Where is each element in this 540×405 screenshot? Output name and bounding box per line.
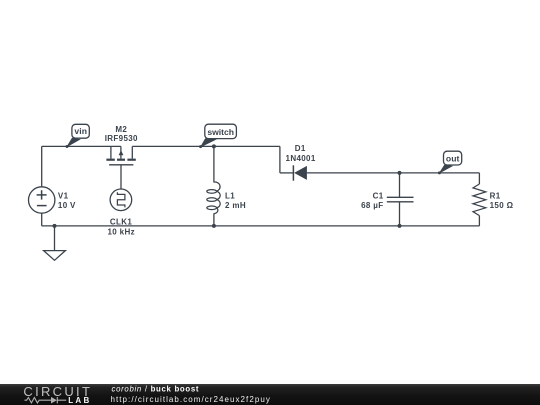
ground: [44, 251, 66, 261]
label V1 value: [58, 191, 76, 210]
wire V1 bottom to rail: [41, 213, 43, 226]
svg-text:D1: D1: [295, 144, 306, 153]
wire top rail right (M2 drain to switch node to step): [132, 145, 280, 147]
svg-text:LAB: LAB: [68, 396, 91, 405]
svg-text:out: out: [446, 153, 460, 163]
label CLK1 10 kHz: [107, 218, 134, 237]
wire inductor branch top: [213, 146, 215, 182]
capacitor C1: [387, 197, 414, 202]
transistor M2 (PMOS IRF9530): [109, 146, 133, 164]
wire capacitor branch bottom: [399, 202, 401, 226]
svg-text:1N4001: 1N4001: [286, 154, 316, 163]
wire step to diode cathode: [280, 172, 294, 174]
svg-text:CLK1: CLK1: [110, 218, 132, 227]
wire top rail left (vin to M2 source): [42, 145, 121, 147]
wire inductor branch bottom: [213, 213, 215, 226]
svg-text:L1: L1: [225, 191, 235, 200]
wire gate line M2 to CLK1: [120, 165, 122, 189]
svg-text:10 V: 10 V: [58, 201, 76, 210]
svg-text:M2: M2: [115, 125, 127, 134]
wire diode anode to out corner: [307, 172, 480, 174]
wire ground stub: [54, 226, 56, 251]
logo diode triangle: [51, 397, 57, 404]
label C1 68 uF: [361, 191, 384, 210]
junction dot C1 bottom: [398, 224, 402, 228]
junction dot V1/ground: [53, 224, 57, 228]
resistor R1: [473, 184, 486, 216]
M2 channel bars and body arrow: [106, 150, 135, 161]
svg-text:68 µF: 68 µF: [361, 201, 383, 210]
svg-text:corobin / buck boost: corobin / buck boost: [112, 385, 200, 394]
clock source CLK1: [110, 189, 132, 211]
svg-text:C1: C1: [373, 191, 384, 200]
wire step down at diode: [279, 146, 281, 173]
label R1 150 ohm: [490, 191, 514, 210]
svg-text:IRF9530: IRF9530: [105, 134, 138, 143]
wire right rail bottom: [478, 216, 480, 226]
node vin flag: [66, 124, 90, 148]
svg-text:150 Ω: 150 Ω: [490, 201, 514, 210]
wire capacitor branch top: [399, 173, 401, 197]
junction dot switch/L1 top: [212, 144, 216, 148]
label M2 IRF9530: [105, 125, 138, 143]
svg-text:switch: switch: [207, 127, 234, 137]
CLK1 square-wave glyph: [117, 192, 125, 207]
svg-text:V1: V1: [58, 191, 69, 200]
node switch flag: [199, 124, 236, 148]
svg-text:http://circuitlab.com/cr24eux2: http://circuitlab.com/cr24eux2f2puy: [111, 395, 271, 404]
svg-text:2 mH: 2 mH: [225, 201, 246, 210]
svg-text:vin: vin: [74, 126, 87, 136]
V1 polarity marks: [37, 190, 47, 205]
logo waveform resistor zigzag and diode: [25, 397, 67, 403]
diode D1: [292, 165, 294, 180]
svg-text:R1: R1: [490, 191, 501, 200]
wire right rail top: [478, 173, 480, 184]
label D1 1N4001: [286, 144, 316, 163]
junction dot L1 bottom: [212, 224, 216, 228]
D1 triangle: [294, 166, 307, 180]
label L1 2 mH: [225, 191, 246, 210]
voltage source V1: [29, 187, 55, 213]
wire bottom rail: [42, 225, 480, 227]
wire left rail vertical: [41, 146, 43, 187]
junction dot C1 top: [398, 171, 402, 175]
node out flag: [438, 151, 462, 174]
inductor L1: [207, 182, 220, 214]
svg-text:10 kHz: 10 kHz: [107, 228, 134, 237]
